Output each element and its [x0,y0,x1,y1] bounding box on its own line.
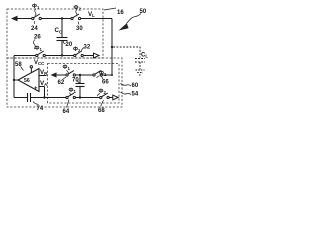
leader squiggle 20 to CC [63,41,65,44]
op-amp 56 triangle [18,69,39,92]
svg-text:24: 24 [31,26,38,32]
svg-text:66: 66 [102,80,109,86]
svg-text:64: 64 [63,109,70,115]
leader arrow for 50 pointing to VL line [119,14,142,31]
leader squiggle 54 from box edge [121,92,132,95]
switch 64 phi1 row2 [66,93,76,99]
wire row1 right segment joining VL rail [102,74,113,76]
node junction bottom of capacitor 70 [79,96,81,98]
pin lead VA (non-inverting input) with drop wire [39,87,45,98]
svg-text:Φ1: Φ1 [69,88,77,94]
switch 30 phi2 on top rail [71,14,81,20]
leader 68 [101,100,104,107]
pin lead VR (inverting input) [39,75,47,77]
leader line for 16 [104,8,116,10]
svg-text:Φ2: Φ2 [73,47,81,53]
svg-text:74: 74 [37,106,44,112]
svg-text:Φ1: Φ1 [35,46,43,52]
switch 26 phi1 on second rail [36,51,46,57]
outer dashed box bottom block [7,58,122,107]
load branch dashed to CL [113,47,140,58]
svg-text:60: 60 [132,83,139,89]
leader squiggle 74 [33,102,39,105]
wire row2 right segment with open port arrow [109,95,118,100]
switch 66 phi2 row1 [93,71,103,77]
wire row1 inner box with arrow to VR [51,72,67,77]
leader squiggle phi1 switch 62 [67,70,70,74]
svg-text:Φ1: Φ1 [63,65,71,71]
wire second rail left segment from op-amp output [14,56,36,98]
svg-text:68: 68 [98,108,105,114]
node junction top of capacitor 70 [79,74,81,76]
leader 24 [33,21,35,24]
svg-text:VCC: VCC [34,60,45,66]
leader squiggle phi1 switch 64 [69,93,72,97]
node junction VL to load branch [111,46,113,48]
svg-text:Φ2: Φ2 [99,89,107,95]
leader squiggle phi2 switch 30 [76,10,77,17]
switch 32 phi2 on second rail [74,51,84,57]
ground symbol under CL [136,70,145,75]
leader 66 [102,77,104,80]
leader squiggle phi2 switch 66 [97,76,100,78]
leader 62 [63,77,67,80]
op-amp output lead and node [13,79,18,81]
node junction VA feedback [43,96,45,98]
switch 62 phi1 row1 [66,71,76,77]
svg-text:62: 62 [58,80,65,86]
svg-text:26: 26 [34,34,41,40]
leader 58 [21,67,24,71]
wire second rail middle segment [45,55,74,57]
svg-text:70: 70 [72,78,79,84]
leader 30 [78,22,79,25]
wire top rail right segment to VL line [81,18,112,20]
switch 68 phi2 row2 [100,93,109,99]
svg-text:50: 50 [140,9,147,15]
leader squiggle 70 to capacitor [77,81,80,83]
leader squiggle 32 [82,48,85,51]
capacitor 74 in feedback wire [14,93,66,102]
capacitor 70 between rows [76,75,85,98]
svg-text:Φ2: Φ2 [99,71,107,77]
capacitor CL dashed [135,59,145,70]
svg-text:CL: CL [141,53,148,59]
outer dashed box 16 (top block) [7,9,103,58]
svg-text:54: 54 [132,92,139,98]
svg-text:16: 16 [117,10,124,16]
svg-text:+: + [34,86,38,92]
svg-text:32: 32 [84,44,91,50]
node junction top of capacitor CC [61,17,63,19]
power terminal Vcc of op-amp [30,66,32,73]
svg-text:56: 56 [24,78,30,84]
wire VL vertical rail [111,19,113,76]
capacitor CC (20) [57,19,68,56]
leader squiggle phi1 switch 24 [35,9,36,17]
svg-text:Φ1: Φ1 [32,4,40,10]
svg-text:Φ2: Φ2 [74,6,82,12]
switch 24 phi1 on top rail [32,14,42,20]
node junction bottom of capacitor CC [61,54,63,56]
svg-text:58: 58 [15,62,22,68]
svg-text:20: 20 [66,42,73,48]
wire top rail middle segment [41,18,71,20]
svg-text:30: 30 [76,26,83,32]
leader squiggle phi2 switch 68 [97,94,100,97]
inner dashed box 54 (switch network) [48,64,120,104]
wire top rail left segment with output arrow [11,16,32,22]
leader 64 [67,100,70,108]
leader squiggle 26 to switch [34,40,36,50]
wire row2 middle segment [75,97,100,99]
wire second rail right segment with open port arrow [83,53,99,58]
leader squiggle 60 from box edge [121,84,132,87]
wire row1 middle segment [75,74,93,76]
